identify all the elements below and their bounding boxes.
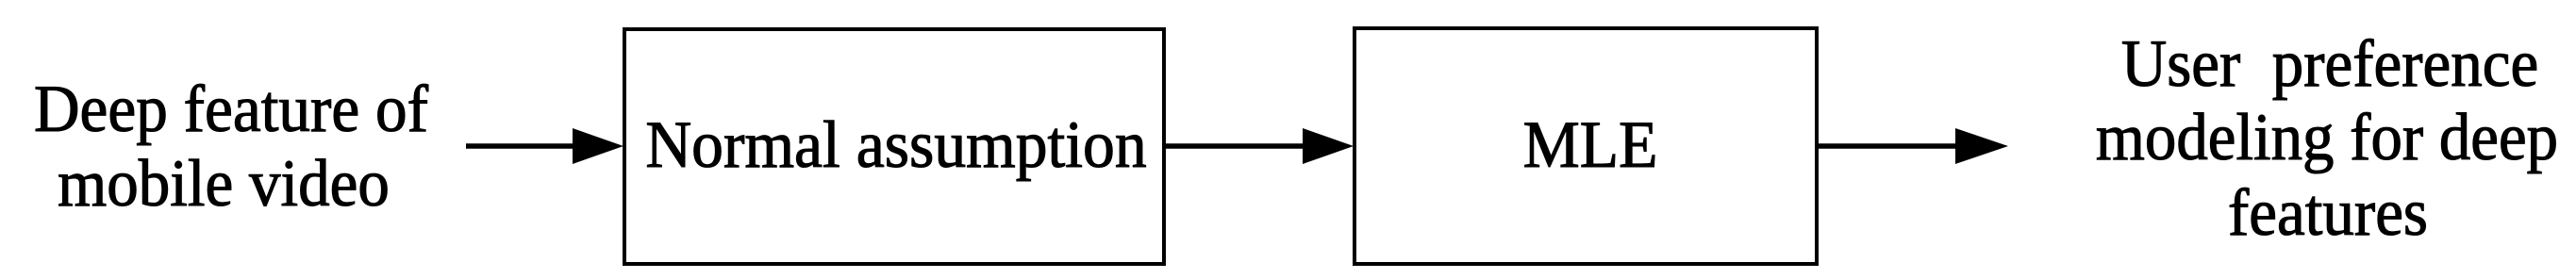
wire: arrow from MLE box to output label	[1817, 128, 2008, 164]
label: Normal assumption	[582, 108, 1210, 183]
node: input label (line 2)	[0, 147, 535, 222]
node: output label "features" (line 3)	[2017, 176, 2576, 251]
box: MLE	[1353, 26, 1819, 266]
wire: arrow from input label to Normal assumption box	[466, 128, 623, 164]
box: Normal assumption	[623, 27, 1166, 266]
label: MLE	[1275, 108, 1904, 183]
node: output label "User preference" (line 1)	[2019, 27, 2576, 102]
node: input label "Deep feature of mobile video" (line 1)	[0, 73, 543, 147]
node: output label "modeling for deep" (line 2)	[2016, 101, 2576, 175]
wire: arrow from Normal assumption box to MLE box	[1164, 128, 1354, 164]
